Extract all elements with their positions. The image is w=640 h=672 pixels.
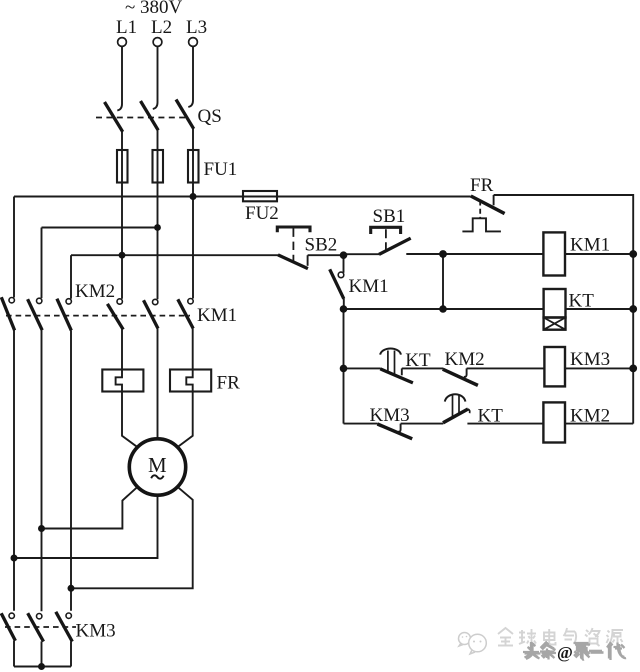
svg-text:~ 380V: ~ 380V [125, 0, 183, 18]
svg-text:FR: FR [470, 175, 494, 196]
svg-text:FR: FR [217, 373, 241, 394]
svg-text:L1: L1 [116, 17, 137, 38]
svg-text:KT: KT [405, 350, 431, 371]
svg-text:KM1: KM1 [197, 305, 237, 326]
svg-text:L3: L3 [186, 17, 207, 38]
svg-text:FU1: FU1 [204, 159, 238, 180]
svg-text:@: @ [557, 643, 573, 662]
svg-text:KT: KT [478, 405, 504, 426]
svg-text:SB1: SB1 [373, 206, 406, 227]
svg-text:KM2: KM2 [570, 405, 610, 426]
svg-text:QS: QS [198, 106, 222, 127]
svg-text:FU2: FU2 [245, 203, 279, 224]
svg-text:KM2: KM2 [75, 281, 115, 302]
svg-text:L2: L2 [151, 17, 172, 38]
svg-text:KM1: KM1 [349, 276, 389, 297]
svg-text:KM2: KM2 [445, 349, 485, 370]
svg-text:KM3: KM3 [76, 621, 116, 642]
svg-text:KM3: KM3 [370, 405, 410, 426]
svg-text:KM3: KM3 [570, 349, 610, 370]
svg-text:KT: KT [569, 290, 595, 311]
svg-text:SB2: SB2 [305, 235, 338, 256]
svg-text:M: M [148, 453, 167, 477]
svg-text:KM1: KM1 [570, 234, 610, 255]
